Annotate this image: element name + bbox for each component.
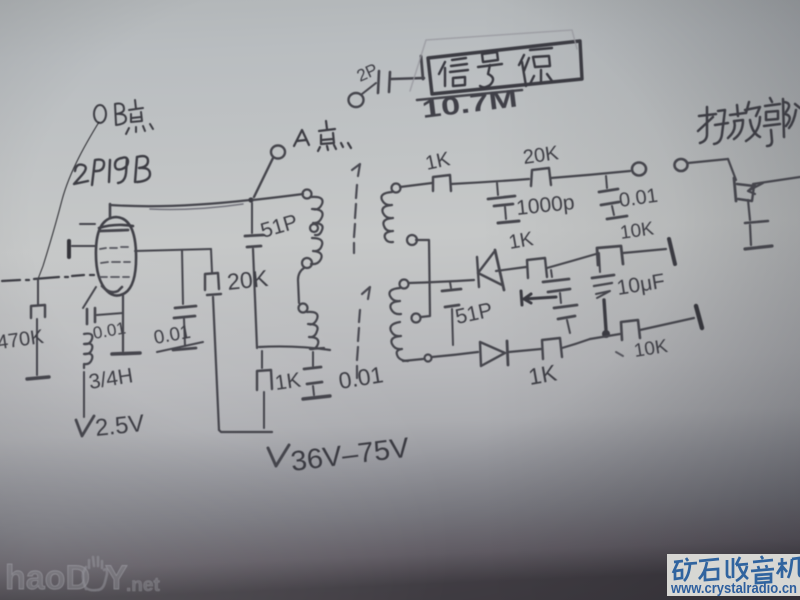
V1 plate (100, 230, 128, 231)
svg-text:.net: .net (126, 575, 160, 596)
wire to 2.5V (83, 372, 85, 417)
stray tick (616, 352, 623, 356)
V1 top cap lead (109, 204, 112, 218)
terminal A (271, 146, 285, 159)
grid wire (72, 245, 96, 247)
resistor 10K (bottom) (621, 306, 702, 340)
junction node (602, 330, 610, 338)
wire to amplifier (688, 159, 728, 163)
resistor 1K (D2) (542, 338, 590, 359)
B+ rail corner (219, 430, 272, 432)
crystalradio watermark (667, 554, 800, 597)
label 功放部分 (698, 98, 800, 146)
label 2P19B (74, 156, 150, 185)
resistor 470K (31, 279, 45, 375)
glyph 机 (777, 558, 800, 578)
inductor 3/4H (84, 334, 92, 368)
shield dash-dot line (2, 275, 94, 281)
wire node A to T1 (253, 194, 303, 200)
glyph 石 (699, 559, 719, 580)
svg-text:2.5V: 2.5V (94, 410, 146, 442)
potentiometer 10K (597, 239, 675, 265)
thin pen curve from 0B点 to grid input (38, 122, 99, 279)
capacitor 51P (detector) (442, 282, 461, 345)
svg-text:haoD: haoD (5, 559, 90, 597)
capacitor stack (AF coupling) (543, 270, 577, 333)
wire sketch double (150, 204, 243, 209)
T2 core (dashed) (357, 287, 370, 378)
label 0B点 (94, 100, 153, 134)
capacitor 0.01 (cathode) (83, 287, 123, 324)
glyph 矿 (673, 558, 697, 581)
wire T2 prim bottom (259, 346, 330, 350)
wire T2 sec bottom (403, 359, 423, 361)
glyph 收 (727, 557, 748, 581)
diode D1 (477, 250, 504, 290)
capacitor 0.01 (det out) (599, 176, 627, 219)
hand icon (83, 557, 107, 590)
wire T2sec-top to D1 (409, 280, 474, 283)
label A点 (294, 121, 351, 151)
svg-text:20K: 20K (226, 265, 270, 295)
label 信号源 (hand-drawn) (439, 48, 552, 87)
wire D2 to 1K (509, 349, 541, 352)
bracket wire T1sec-bottom to T2sec-mid (416, 240, 430, 317)
haoDIY.net watermark (5, 557, 160, 597)
V1 grid dashes (100, 247, 130, 277)
triode V1 2P19B : envelope (96, 217, 136, 296)
cathode right lead (122, 295, 124, 351)
transformer T2 primary winding (299, 304, 325, 350)
wire D1 to 1K (496, 267, 526, 271)
wire A to node (254, 158, 273, 197)
svg-text:1K: 1K (507, 228, 536, 254)
transistor Q1 (728, 159, 800, 249)
transformer T1 primary winding (302, 190, 323, 269)
capacitor 0.01 (B+ bypass) (303, 352, 330, 399)
hook terminal (425, 355, 432, 362)
resistor 1K (T2 bottom) (257, 351, 272, 428)
capacitor 51P (neutralizing) (245, 203, 263, 348)
V1 grid stub left (80, 223, 95, 225)
terminal o (right) (675, 159, 688, 171)
capacitor 1000p (488, 183, 519, 223)
grid input bar (67, 241, 71, 257)
svg-text:www.crystalradio.cn: www.crystalradio.cn (670, 581, 797, 597)
resistor 1K (detector) (527, 254, 596, 278)
ground (470K) (27, 377, 49, 379)
wiper arrow (521, 291, 556, 305)
capacitor (coupling, 2P) (378, 71, 424, 93)
svg-text:Y: Y (105, 559, 128, 597)
node A junction (248, 197, 253, 202)
signal source box (410, 30, 582, 100)
transformer T1 secondary winding (381, 184, 417, 246)
wire T1 sec top to 1K (400, 183, 432, 187)
wire plate top (110, 200, 250, 206)
transformer T2 secondary winding (389, 280, 420, 362)
resistor 20K (screen) (205, 249, 221, 430)
svg-text:1K: 1K (273, 369, 302, 395)
svg-text:1K: 1K (526, 359, 559, 390)
resistor 20K (top row) (531, 168, 630, 186)
diode D2 (480, 341, 508, 366)
arrow 2.5V (76, 416, 94, 436)
T1 core (dashed) (352, 164, 360, 253)
input terminal 2P (349, 83, 377, 107)
capacitor 10uF electrolytic (592, 253, 614, 330)
wire to diode D2 (432, 352, 478, 357)
glyph 音 (751, 556, 774, 583)
resistor 1K (top row) (433, 175, 529, 191)
wire T1 prim bottom to T2 (298, 268, 304, 303)
wire screen grid (135, 249, 211, 251)
capacitor 0.01 (screen bypass) (173, 250, 196, 350)
bottom wire through junction (590, 334, 620, 339)
terminal o (left) (632, 163, 646, 176)
arrow 36V-75V (268, 445, 289, 466)
ground (cathode) (112, 353, 140, 354)
V1 cathode (102, 286, 122, 292)
